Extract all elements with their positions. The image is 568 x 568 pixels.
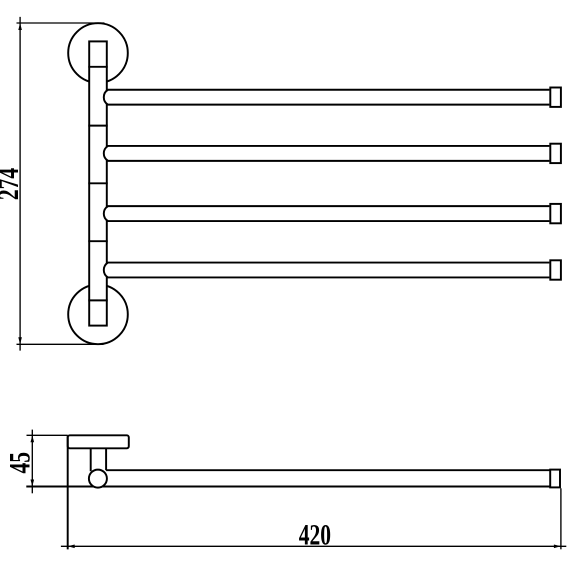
svg-text:274: 274 — [0, 168, 25, 200]
svg-text:420: 420 — [299, 518, 331, 551]
svg-text:45: 45 — [3, 452, 36, 474]
